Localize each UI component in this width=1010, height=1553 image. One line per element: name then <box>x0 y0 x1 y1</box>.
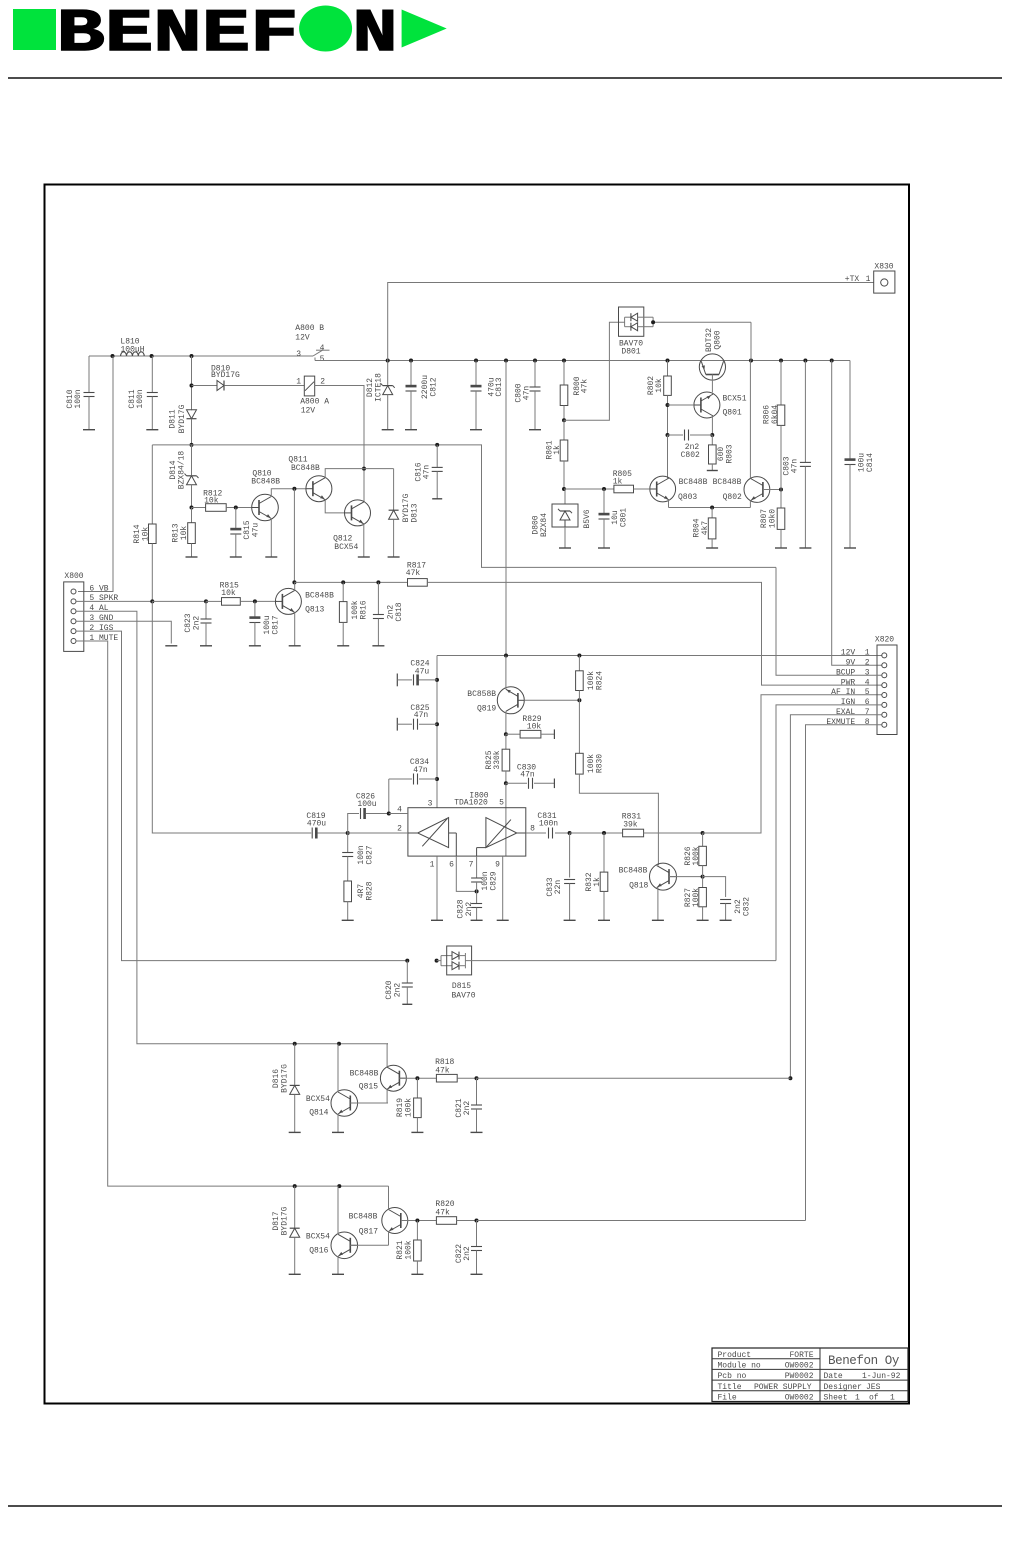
svg-text:2n2: 2n2 <box>393 983 402 998</box>
svg-text:12V: 12V <box>295 334 310 343</box>
wire R817 to PWR <box>427 582 882 685</box>
svg-text:N: N <box>353 1 398 69</box>
svg-text:1k: 1k <box>593 877 602 887</box>
wire Q810 collector to Q811 base <box>271 487 306 497</box>
svg-text:PWR: PWR <box>841 678 856 687</box>
svg-text:47n: 47n <box>522 386 531 401</box>
wire output row <box>570 831 623 835</box>
transistor Q803 BC848B <box>650 476 676 502</box>
svg-text:6: 6 <box>865 698 870 707</box>
svg-text:C814: C814 <box>866 453 875 472</box>
svg-text:Module no: Module no <box>718 1362 761 1371</box>
svg-text:File: File <box>718 1394 737 1403</box>
svg-text:Designer: Designer <box>824 1383 863 1392</box>
svg-text:EXAL: EXAL <box>836 708 855 717</box>
svg-text:9V: 9V <box>846 659 856 668</box>
svg-text:BC848B: BC848B <box>679 478 708 487</box>
resistor R829 <box>506 715 555 739</box>
svg-text:C832: C832 <box>742 897 751 916</box>
capacitor C814 <box>844 361 875 549</box>
wire +TX net <box>388 283 874 361</box>
wire Q802 base <box>763 488 783 492</box>
svg-text:2n2: 2n2 <box>192 616 201 631</box>
resistor R826 <box>684 833 707 877</box>
transistor Q811 BC848B <box>306 476 332 502</box>
wire R817 node row <box>294 580 407 584</box>
svg-text:BYD17G: BYD17G <box>280 1064 289 1093</box>
svg-text:330k: 330k <box>493 750 502 769</box>
title block <box>712 1348 908 1403</box>
capacitor C819 <box>306 812 349 839</box>
svg-text:470u: 470u <box>307 819 326 828</box>
resistor R827 <box>684 877 709 921</box>
dual diode D801 BAV70 <box>564 307 751 420</box>
capacitor C829 <box>471 856 498 891</box>
transistor Q800 BDT32 <box>699 328 725 392</box>
label Q802 <box>713 478 742 502</box>
svg-text:Pcb no: Pcb no <box>718 1372 747 1381</box>
svg-text:2n2: 2n2 <box>463 1101 472 1116</box>
wire Q802 collector <box>749 361 751 479</box>
label Q814 <box>306 1095 330 1118</box>
capacitor C818 <box>372 582 403 645</box>
svg-text:of: of <box>869 1394 879 1403</box>
svg-text:9: 9 <box>495 861 500 870</box>
svg-text:Product: Product <box>718 1351 752 1360</box>
capacitor C817 <box>249 601 280 645</box>
resistor R831 <box>622 813 705 837</box>
svg-text:IGN: IGN <box>841 698 856 707</box>
footer rule <box>8 1505 1002 1507</box>
transistor Q802 BC848B <box>744 477 770 503</box>
label Q815 <box>350 1069 379 1091</box>
resistor R832 <box>585 833 610 920</box>
svg-text:BYD17G: BYD17G <box>178 404 187 433</box>
wire Q817 collector <box>387 1186 390 1209</box>
svg-text:1k: 1k <box>613 478 623 487</box>
svg-text:100n: 100n <box>136 389 145 408</box>
svg-text:BC848B: BC848B <box>713 478 742 487</box>
resistor R819 <box>396 1078 424 1132</box>
svg-text:6: 6 <box>449 861 454 870</box>
transistor Q810 BC848B <box>252 494 279 521</box>
svg-text:47n: 47n <box>422 465 431 480</box>
svg-text:C801: C801 <box>619 508 628 527</box>
svg-text:600: 600 <box>717 447 726 462</box>
svg-text:8: 8 <box>530 825 535 834</box>
svg-text:R828: R828 <box>365 881 374 900</box>
transistor Q817 BC848B <box>382 1208 408 1234</box>
capacitor C824 <box>397 659 437 686</box>
svg-text:1: 1 <box>855 1394 860 1403</box>
svg-text:4: 4 <box>320 344 325 353</box>
svg-text:BZX84: BZX84 <box>540 513 549 537</box>
svg-text:8: 8 <box>865 718 870 727</box>
wire Q819 base <box>524 698 581 702</box>
svg-text:5: 5 <box>865 688 870 697</box>
svg-text:Q803: Q803 <box>678 493 697 502</box>
connector X800 <box>64 572 119 651</box>
svg-text:22n: 22n <box>554 880 563 895</box>
svg-text:100u: 100u <box>357 800 376 809</box>
wire pin5 <box>505 783 507 856</box>
svg-text:ICTE18: ICTE18 <box>374 373 383 402</box>
wire Q819 emitter <box>505 656 507 690</box>
svg-text:2n2: 2n2 <box>463 1246 472 1261</box>
svg-text:1: 1 <box>890 1394 895 1403</box>
svg-text:7: 7 <box>865 708 870 717</box>
svg-text:Q816: Q816 <box>309 1247 328 1256</box>
svg-text:100k: 100k <box>692 888 701 907</box>
svg-text:BC848B: BC848B <box>619 867 648 876</box>
wire Q813 collector <box>294 582 296 590</box>
svg-text:Title: Title <box>718 1383 742 1392</box>
svg-text:D813: D813 <box>410 503 419 522</box>
svg-text:47k: 47k <box>435 1209 450 1218</box>
IC I800 TDA1020 <box>397 791 535 869</box>
svg-text:47n: 47n <box>790 459 799 474</box>
svg-text:10k: 10k <box>527 723 542 732</box>
capacitor C811 <box>128 356 159 430</box>
svg-text:BC848B: BC848B <box>251 478 280 487</box>
svg-text:C818: C818 <box>395 602 404 621</box>
svg-text:47k: 47k <box>580 379 589 394</box>
resistor R817 <box>406 562 428 587</box>
capacitor C802 <box>668 430 713 461</box>
wire IGN net <box>776 705 882 961</box>
wire Q810 emitter <box>265 519 277 558</box>
svg-text:1: 1 <box>430 861 435 870</box>
wire SPKR down to C819 <box>152 601 311 833</box>
wire 12V switched rail <box>315 360 850 362</box>
wire pin6 <box>456 856 478 893</box>
wire D815 to IGN <box>465 960 776 962</box>
schematic frame <box>45 185 910 1404</box>
capacitor C827 resistor R828 <box>342 833 375 920</box>
label A800 B <box>295 324 324 364</box>
wire pin3 C824 net <box>435 656 439 808</box>
svg-text:BYD17G: BYD17G <box>211 371 240 380</box>
resistor R805 <box>564 470 650 493</box>
label Q817 <box>349 1213 379 1237</box>
wire Q817 base node <box>401 1219 437 1223</box>
wire Q816 collector <box>337 1186 339 1234</box>
label Q803 <box>678 478 708 502</box>
svg-text:BC848B: BC848B <box>305 592 334 601</box>
transistor Q812 BCX54 <box>345 500 371 526</box>
capacitor C813 <box>470 361 504 430</box>
svg-text:100k: 100k <box>692 846 701 865</box>
svg-text:3: 3 <box>865 668 870 677</box>
label Q819 <box>467 690 496 713</box>
svg-text:X820: X820 <box>875 635 894 644</box>
wire Q818 base node <box>669 875 705 879</box>
wire BCUP net <box>776 567 882 675</box>
transistor Q814 BCX54 <box>331 1090 358 1117</box>
svg-text:3: 3 <box>296 350 301 359</box>
capacitor C816 <box>414 445 442 499</box>
transistor Q818 BC848B <box>650 863 677 890</box>
wire Q814 base row <box>350 1102 388 1104</box>
svg-text:100k: 100k <box>404 1240 413 1259</box>
svg-text:JES: JES <box>866 1383 881 1392</box>
svg-text:47u: 47u <box>251 523 260 538</box>
svg-text:Q800: Q800 <box>713 330 722 349</box>
svg-text:1: 1 <box>296 378 301 387</box>
svg-text:47k: 47k <box>435 1066 450 1075</box>
capacitor C828 <box>456 891 482 920</box>
transistor Q801 BCX51 <box>694 392 747 437</box>
svg-text:BCX54: BCX54 <box>334 543 358 552</box>
svg-text:1-Jun-92: 1-Jun-92 <box>862 1372 901 1381</box>
logo Benefon <box>13 1 447 69</box>
svg-text:1k: 1k <box>553 445 562 455</box>
wire EXMUTE net <box>806 725 882 1221</box>
svg-text:BCX54: BCX54 <box>306 1095 330 1104</box>
wire Q814 emitter <box>332 1114 344 1132</box>
wire GND pin <box>76 621 171 643</box>
svg-text:BYD17G: BYD17G <box>280 1206 289 1235</box>
svg-text:Benefon Oy: Benefon Oy <box>828 1354 900 1368</box>
capacitor C801 <box>598 489 628 548</box>
capacitor C820 <box>385 961 413 1005</box>
wire R830 to Q818 collector <box>579 774 658 865</box>
wire Q815 emitter <box>386 1089 389 1103</box>
resistor R802 <box>647 361 672 438</box>
svg-text:Date: Date <box>824 1372 843 1381</box>
svg-text:EXMUTE: EXMUTE <box>826 718 855 727</box>
svg-text:100k: 100k <box>404 1098 413 1117</box>
wire Q810 base net <box>292 489 296 585</box>
resistor R818 <box>435 1058 478 1082</box>
wire 9V net <box>832 361 882 666</box>
svg-text:R803: R803 <box>726 444 735 463</box>
dual diode D815 BAV70 <box>437 946 476 1000</box>
resistor R812 <box>192 489 253 511</box>
wire Q818 emitter <box>652 888 664 921</box>
diode D813 <box>388 469 420 557</box>
wire SPKR net <box>76 599 222 603</box>
wire Q816 emitter <box>332 1256 344 1274</box>
wire 12V row to X820 pin1 <box>437 654 882 658</box>
resistor R814 <box>133 445 156 601</box>
svg-text:C802: C802 <box>681 451 700 460</box>
diode D812 <box>366 361 395 430</box>
svg-text:BCX51: BCX51 <box>723 395 747 404</box>
wire Q817 emitter <box>387 1232 390 1246</box>
svg-text:C812: C812 <box>429 377 438 396</box>
svg-text:BC848B: BC848B <box>291 464 320 473</box>
wire MUTE net <box>76 641 388 1188</box>
svg-text:47k: 47k <box>406 569 421 578</box>
resistor R806 <box>762 361 785 490</box>
svg-text:12V: 12V <box>841 649 856 658</box>
resistor R803 <box>707 435 735 471</box>
transistor Q819 BC858B <box>497 687 524 714</box>
svg-text:1: 1 <box>865 649 870 658</box>
svg-text:BC858B: BC858B <box>467 690 496 699</box>
wire audio in pin2 <box>348 832 408 834</box>
wire Q814 collector <box>337 1044 339 1092</box>
svg-text:X830: X830 <box>874 262 893 271</box>
svg-text:D811: D811 <box>168 409 177 428</box>
svg-text:Q817: Q817 <box>359 1228 378 1237</box>
zener D814 <box>169 445 199 510</box>
wire Q819 collector <box>504 711 508 736</box>
label Q813 <box>305 592 334 615</box>
resistor R801 <box>545 420 568 491</box>
zener D800 BZX84 B5V6 <box>531 489 592 548</box>
wire VB net <box>78 356 113 592</box>
wire R820 to EXMUTE <box>477 1220 806 1222</box>
svg-text:5: 5 <box>320 355 325 364</box>
resistor R830 <box>576 700 605 774</box>
diode D810 <box>192 364 305 390</box>
svg-text:X800: X800 <box>64 572 83 581</box>
svg-text:Q814: Q814 <box>309 1108 328 1117</box>
capacitor C815 <box>230 508 260 558</box>
diode D817 <box>272 1186 301 1274</box>
svg-text:6 VB: 6 VB <box>89 584 108 593</box>
ground X800 GND <box>165 645 177 647</box>
svg-text:Q819: Q819 <box>477 705 496 714</box>
svg-text:+TX: +TX <box>845 275 860 284</box>
wire IGS net <box>76 631 439 963</box>
svg-text:12V: 12V <box>301 406 316 415</box>
svg-text:TDA1020: TDA1020 <box>454 799 488 808</box>
wire pin9 ground <box>497 856 509 920</box>
label Q812 <box>333 535 358 552</box>
svg-text:D815: D815 <box>452 982 471 991</box>
capacitor C822 <box>455 1221 483 1275</box>
svg-text:10k: 10k <box>221 589 236 598</box>
svg-text:Sheet: Sheet <box>824 1394 848 1403</box>
wire Q816 base row <box>350 1244 388 1246</box>
svg-text:FORTE: FORTE <box>789 1351 813 1360</box>
capacitor C833 <box>546 833 576 920</box>
svg-text:OW0002: OW0002 <box>785 1394 814 1403</box>
capacitor C834 <box>389 758 437 785</box>
label Q810 <box>251 469 280 486</box>
svg-text:OW0002: OW0002 <box>785 1362 814 1371</box>
resistor R824 <box>576 656 605 701</box>
wire Q811 emitter to Q812 base <box>325 500 344 513</box>
svg-text:10k0: 10k0 <box>768 509 777 528</box>
resistor R816 <box>337 582 368 645</box>
wire Q815 collector <box>386 1044 389 1067</box>
wire AL net <box>76 611 388 1046</box>
svg-text:2n2: 2n2 <box>465 902 474 917</box>
svg-text:10k: 10k <box>655 378 664 393</box>
capacitor C832 <box>703 877 752 921</box>
wire Q811 collector net <box>325 469 393 478</box>
svg-text:R816: R816 <box>359 600 368 619</box>
svg-text:2: 2 <box>865 659 870 668</box>
svg-text:Q801: Q801 <box>723 409 742 418</box>
capacitor C831 <box>526 812 572 839</box>
svg-text:BC848B: BC848B <box>350 1069 379 1078</box>
label Q816 <box>306 1233 330 1256</box>
svg-text:4: 4 <box>865 678 870 687</box>
svg-text:100n: 100n <box>539 820 558 829</box>
wire EXAL net <box>788 715 881 1080</box>
svg-text:R824: R824 <box>595 671 604 690</box>
svg-text:6k04: 6k04 <box>771 405 780 424</box>
svg-text:C827: C827 <box>365 845 374 864</box>
capacitor C830 <box>506 763 555 789</box>
svg-text:Q818: Q818 <box>629 882 648 891</box>
svg-text:BENEF: BENEF <box>57 1 299 69</box>
resistor R800 <box>560 361 589 423</box>
label Q818 <box>619 867 649 891</box>
wire Q801 base <box>668 404 694 406</box>
svg-text:4k7: 4k7 <box>701 521 710 536</box>
capacitor C821 <box>455 1078 483 1132</box>
svg-text:10k: 10k <box>141 527 150 542</box>
resistor R815 <box>220 581 277 605</box>
capacitor C812 <box>405 361 438 430</box>
diode D811 <box>168 356 196 447</box>
svg-text:BC848B: BC848B <box>349 1213 378 1222</box>
svg-text:100n: 100n <box>74 389 83 408</box>
svg-text:R830: R830 <box>595 754 604 773</box>
svg-text:Q813: Q813 <box>305 606 324 615</box>
svg-text:C817: C817 <box>271 615 280 634</box>
svg-text:47n: 47n <box>520 770 535 779</box>
wire pin1 ground <box>431 856 443 920</box>
capacitor C800 <box>514 361 541 430</box>
svg-text:POWER SUPPLY: POWER SUPPLY <box>754 1383 812 1392</box>
connector X820 <box>826 635 897 734</box>
inductor L810 <box>120 338 144 356</box>
label Q811 <box>288 456 320 474</box>
capacitor C825 <box>397 704 437 731</box>
svg-text:BCX54: BCX54 <box>306 1233 330 1242</box>
svg-text:100uH: 100uH <box>120 345 144 354</box>
svg-text:PW0002: PW0002 <box>785 1372 814 1381</box>
svg-text:10k: 10k <box>204 497 219 506</box>
relay coil A800 A <box>296 376 329 415</box>
svg-text:C829: C829 <box>489 871 498 890</box>
svg-text:5: 5 <box>499 799 504 808</box>
svg-text:1: 1 <box>866 275 871 284</box>
resistor R821 <box>396 1221 424 1275</box>
svg-text:39k: 39k <box>623 821 638 830</box>
wire R818 to EXAL <box>477 1077 791 1079</box>
svg-text:BCUP: BCUP <box>836 668 855 677</box>
header rule <box>8 77 1002 79</box>
svg-text:Q815: Q815 <box>359 1083 378 1092</box>
transistor Q815 BC848B <box>380 1065 406 1091</box>
svg-text:3: 3 <box>428 800 433 809</box>
svg-text:2: 2 <box>397 825 402 834</box>
wire 12V to audio section <box>505 361 507 656</box>
svg-text:BAV70: BAV70 <box>451 991 475 1000</box>
transistor Q813 BC848B <box>275 588 301 614</box>
capacitor C810 <box>66 356 95 430</box>
resistor R804 <box>692 508 718 549</box>
transistor Q816 BCX54 <box>331 1232 358 1259</box>
svg-text:7: 7 <box>469 861 474 870</box>
capacitor C803 <box>782 361 811 549</box>
wire C834 to pin4 <box>388 779 390 814</box>
svg-text:AF IN: AF IN <box>831 688 855 697</box>
svg-text:A800 B: A800 B <box>295 324 324 333</box>
junction dots on rails <box>111 354 834 363</box>
diode D816 <box>272 1044 301 1133</box>
resistor R825 <box>485 734 510 785</box>
svg-text:47n: 47n <box>414 711 429 720</box>
